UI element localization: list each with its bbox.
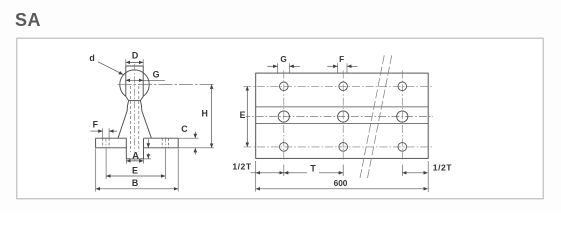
- D extension lines: [125, 59, 127, 66]
- svg-text:C: C: [181, 124, 188, 134]
- dimension 1/2T left: [251, 172, 284, 174]
- large holes middle row: [278, 111, 289, 122]
- svg-text:D: D: [132, 50, 138, 60]
- dimension D: [126, 61, 143, 63]
- svg-text:F: F: [339, 55, 344, 64]
- svg-text:E: E: [132, 165, 138, 175]
- base plate left edge: [95, 138, 97, 148]
- small holes bottom row: [280, 143, 289, 152]
- F extension stubs: [337, 63, 339, 73]
- spigot block left edge: [125, 138, 127, 159]
- svg-text:600: 600: [334, 178, 348, 188]
- dimension F: [91, 130, 103, 132]
- dimension G: [126, 79, 165, 81]
- E extension lines: [105, 148, 107, 179]
- svg-text:H: H: [202, 108, 208, 118]
- svg-text:d: d: [89, 53, 94, 63]
- ball flat top: [126, 65, 143, 67]
- svg-text:F: F: [93, 119, 99, 129]
- dimension A: [126, 160, 143, 162]
- dimension H: [211, 85, 213, 148]
- row centerlines: [242, 71, 433, 160]
- leader d: [98, 62, 123, 75]
- spigot block bottom: [126, 158, 143, 160]
- spigot bottom tick: [144, 158, 151, 160]
- plate outline: [256, 73, 429, 158]
- pedestal right profile: [140, 101, 151, 139]
- centerline vertical: [134, 64, 136, 161]
- base plate top line: [96, 137, 179, 139]
- 600 extension lines: [255, 161, 257, 192]
- G extension stubs: [277, 63, 279, 73]
- right view labels: [239, 111, 246, 118]
- spigot protrusion arrows: [147, 139, 149, 147]
- svg-text:1/2T: 1/2T: [433, 163, 452, 173]
- dimension 1/2T right: [402, 172, 428, 174]
- shoulder line under ball: [129, 100, 141, 102]
- svg-text:A: A: [132, 151, 139, 162]
- dimension F arrows: [327, 65, 337, 67]
- C extension top (base top extended): [179, 137, 199, 139]
- A extension lines: [125, 159, 127, 164]
- dimension T: [284, 172, 307, 174]
- svg-text:T: T: [310, 163, 316, 173]
- extension lines right view: [256, 63, 429, 192]
- bolt hole hidden lines right: [161, 138, 163, 147]
- ball horizontal centerline / H extension: [118, 84, 214, 86]
- F extension lines: [102, 128, 104, 138]
- column extension stubs below plate: [283, 165, 285, 177]
- bolt hole centerlines: [106, 137, 165, 148]
- dimension B: [96, 188, 179, 190]
- base plate right edge: [177, 138, 179, 148]
- dimension C: [194, 132, 196, 139]
- dimension E: [106, 175, 165, 177]
- ball flat left: [125, 66, 127, 96]
- ball flat right: [142, 66, 144, 96]
- svg-text:SA: SA: [15, 10, 41, 30]
- C / H extension bottom (base bottom extended): [179, 147, 214, 149]
- frame box: [17, 38, 543, 199]
- hidden thread lines in column: [131, 86, 139, 152]
- dimension G arrows: [267, 65, 277, 67]
- spigot block right edge: [143, 138, 145, 159]
- ball sphere d: [120, 70, 149, 97]
- neck chamfer left: [126, 96, 129, 100]
- break lines: [360, 54, 392, 178]
- B extension lines: [95, 148, 97, 191]
- neck chamfer right: [140, 96, 143, 100]
- small holes top row: [278, 82, 408, 151]
- svg-text:1/2T: 1/2T: [232, 162, 251, 172]
- label white patch for A: [131, 151, 141, 158]
- dimension E right view: [246, 86, 248, 147]
- column centerlines: [283, 71, 285, 160]
- base plate bottom line: [96, 147, 179, 149]
- rib band top line: [256, 106, 429, 108]
- rib band bottom line: [256, 123, 429, 125]
- svg-text:E: E: [240, 110, 246, 120]
- svg-text:G: G: [280, 55, 286, 64]
- svg-text:G: G: [153, 69, 160, 79]
- svg-text:B: B: [132, 178, 138, 188]
- pedestal left profile: [118, 101, 129, 139]
- bolt hole hidden lines left: [103, 138, 169, 147]
- dimension 600: [256, 188, 428, 190]
